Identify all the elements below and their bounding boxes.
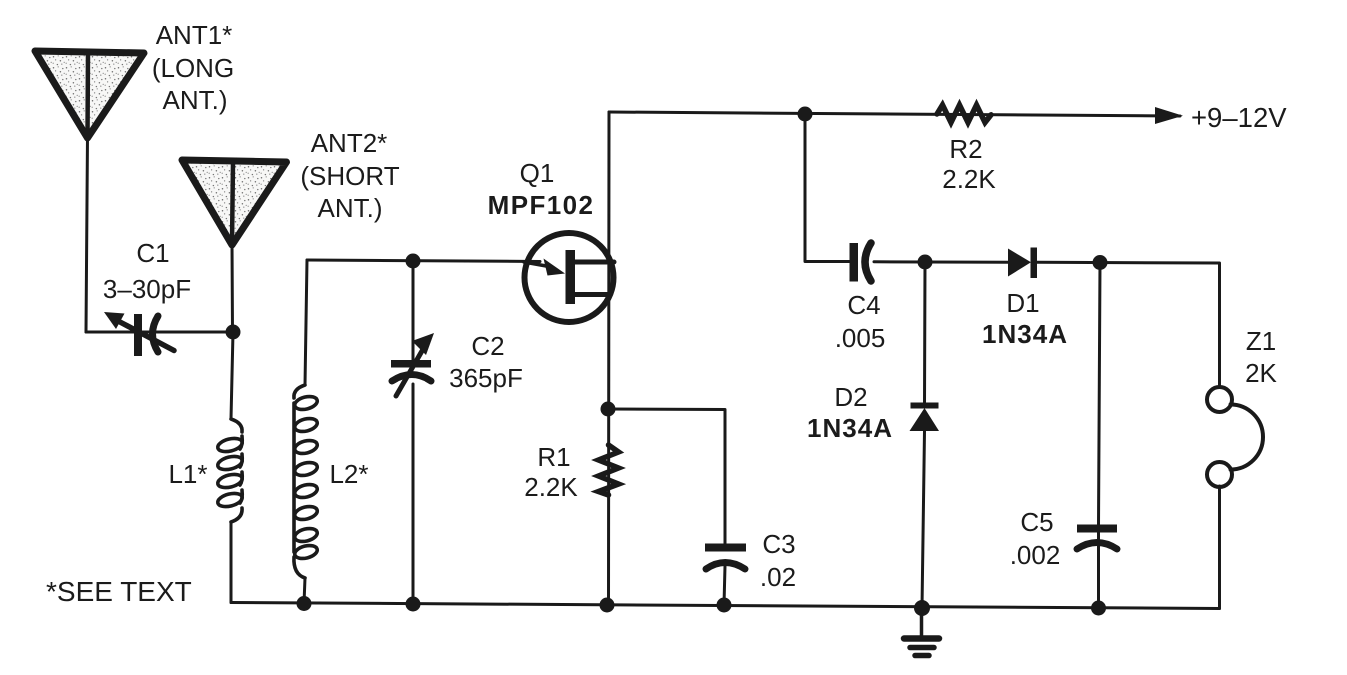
antenna ANT1 [35, 51, 144, 138]
svg-text:(LONG: (LONG [152, 53, 234, 83]
node top rail junction [798, 107, 813, 122]
supply arrow [1155, 107, 1183, 124]
node ground junction [914, 600, 930, 616]
capacitor C2 [391, 333, 434, 396]
capacitor C5 [1077, 525, 1117, 550]
wire C5 vertical [1099, 263, 1101, 609]
diode D2 [910, 403, 940, 432]
wire drain/source vertical column [607, 112, 611, 605]
inductor L1 [216, 419, 243, 522]
svg-text:C5: C5 [1020, 507, 1053, 537]
svg-text:2K: 2K [1245, 358, 1277, 388]
wire D2 bottom [922, 431, 925, 608]
svg-text:1N34A: 1N34A [807, 413, 893, 443]
svg-text:.02: .02 [760, 562, 796, 592]
svg-text:MPF102: MPF102 [488, 190, 595, 220]
wire bottom rail [231, 603, 1220, 609]
svg-text:2.2K: 2.2K [524, 472, 578, 502]
node C3 bottom [717, 598, 732, 613]
ground [904, 608, 939, 656]
node C5 bottom [1091, 601, 1106, 616]
node L2 bottom [297, 596, 312, 611]
wire D1 to right corner [1037, 262, 1220, 387]
svg-text:Z1: Z1 [1246, 326, 1276, 356]
node R1/C3 junction [601, 402, 616, 417]
svg-text:ANT.): ANT.) [318, 193, 383, 223]
svg-text:Q1: Q1 [520, 158, 555, 188]
svg-text:L2*: L2* [329, 459, 368, 489]
wire C1 horizontal [86, 331, 233, 334]
wire L2 top lead [305, 260, 307, 385]
wire L1 bottom to rail [230, 522, 233, 603]
jack Z1 [1207, 387, 1263, 487]
svg-text:ANT1*: ANT1* [156, 20, 233, 50]
svg-text:.002: .002 [1010, 540, 1061, 570]
capacitor C1 [104, 312, 174, 356]
wire top rail [609, 112, 1180, 116]
svg-text:ANT.): ANT.) [163, 85, 228, 115]
node junction C1/ANT2 [226, 325, 241, 340]
svg-text:1N34A: 1N34A [982, 319, 1068, 349]
wire ANT2 lead down [231, 243, 235, 332]
svg-text:R2: R2 [949, 134, 982, 164]
node D1/C5 junction [1093, 255, 1108, 270]
svg-text:2.2K: 2.2K [942, 164, 996, 194]
capacitor C3 [705, 544, 746, 570]
svg-text:L1*: L1* [168, 459, 207, 489]
node R1 bottom rail [600, 598, 615, 613]
node gate/C2 junction [406, 254, 421, 269]
svg-text:365pF: 365pF [449, 363, 523, 393]
wire C2 bottom lead [412, 384, 415, 604]
svg-text:C3: C3 [762, 529, 795, 559]
resistor R2 [937, 105, 991, 123]
wire D2 vertical top [923, 262, 927, 404]
wire gate rail (tank top) [307, 260, 540, 262]
svg-text:3–30pF: 3–30pF [103, 274, 191, 304]
svg-text:D2: D2 [834, 382, 867, 412]
svg-text:D1: D1 [1006, 288, 1039, 318]
svg-text:ANT2*: ANT2* [311, 128, 388, 158]
wire ANT1 lead down [86, 136, 88, 332]
capacitor C4 [850, 243, 872, 282]
wire L2 bottom to rail [304, 578, 305, 604]
wire Z1 bottom [1218, 486, 1221, 609]
svg-text:*SEE TEXT: *SEE TEXT [46, 576, 192, 607]
svg-text:C4: C4 [847, 290, 880, 320]
wire C4 to D1 [874, 260, 1008, 263]
node C4/D2 junction [918, 255, 933, 270]
wire C3 bottom [724, 566, 725, 605]
svg-text:C2: C2 [471, 331, 504, 361]
wire left column down to L1 [231, 332, 233, 419]
svg-text:(SHORT: (SHORT [300, 161, 399, 191]
wire node to C3 [608, 409, 725, 544]
svg-text:R1: R1 [537, 442, 570, 472]
svg-text:+9–12V: +9–12V [1191, 102, 1287, 133]
antenna ANT2 [182, 160, 287, 245]
wire C2 top lead [412, 261, 415, 360]
diode D1 [1008, 248, 1037, 279]
inductor L2 [293, 385, 318, 578]
wire from top junction down [805, 114, 850, 262]
transistor Q1 [524, 233, 614, 322]
svg-text:.005: .005 [835, 323, 886, 353]
node C2 bottom [406, 597, 421, 612]
svg-text:C1: C1 [136, 238, 169, 268]
resistor R1 [599, 445, 619, 495]
